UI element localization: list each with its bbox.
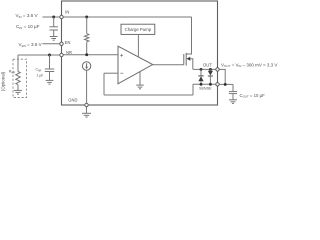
svg-text:VOUT = VIN – 300 mV ≈ 3.3 V: VOUT = VIN – 300 mV ≈ 3.3 V — [221, 62, 277, 68]
wire RNR to ground — [17, 85, 19, 91]
junction SENSE left — [200, 83, 203, 86]
pin EN circle — [60, 42, 63, 45]
dashed optional box — [13, 59, 27, 97]
capacitor COUT — [229, 84, 237, 99]
pin OUT circle — [216, 68, 219, 71]
junction OUT left — [200, 68, 203, 71]
wire charge pump to amplifier — [137, 34, 139, 56]
wire IN rail — [62, 16, 192, 18]
junction CIN tap — [52, 16, 55, 19]
wire VIN to IN pin — [43, 16, 62, 18]
resistor reference — [85, 34, 89, 42]
ground RNR — [14, 90, 22, 94]
junction CNR tap — [48, 54, 51, 57]
svg-text:Charge Pump: Charge Pump — [125, 27, 152, 32]
transistor Q1 drain lead — [186, 17, 191, 54]
transistor Q1 channel bar — [185, 53, 187, 66]
svg-text:CNR: CNR — [36, 68, 42, 73]
minus input mark — [120, 72, 123, 74]
svg-text:EN: EN — [65, 40, 71, 45]
wire down to RNR — [17, 55, 19, 72]
pin IN circle — [60, 15, 63, 18]
plus input mark — [120, 54, 123, 57]
svg-text:1 µF: 1 µF — [37, 74, 44, 78]
wire SENSE pin external — [218, 83, 234, 85]
junction NR node — [85, 53, 88, 56]
pin SENSE circle — [216, 83, 219, 86]
current source arrow — [86, 63, 88, 67]
wire resistor to NR node — [86, 42, 88, 55]
wire SENSE rail — [193, 83, 218, 85]
wire NR external — [18, 54, 62, 56]
capacitor CNR — [45, 55, 54, 80]
transistor Q1 gate bar — [183, 54, 185, 65]
wire VEN to EN pin — [43, 43, 62, 45]
charge pump block — [121, 24, 155, 34]
pin NR circle — [60, 53, 63, 56]
current source I1 — [82, 62, 90, 70]
svg-text:RNR: RNR — [9, 70, 15, 75]
transistor Q1 body arrow — [187, 57, 191, 61]
svg-text:SENSE: SENSE — [199, 87, 212, 91]
diode D2 down — [209, 69, 211, 70]
svg-text:COUT = 10 µF: COUT = 10 µF — [240, 93, 266, 99]
wire to resistor — [86, 17, 88, 34]
svg-text:(Optional): (Optional) — [0, 71, 5, 91]
svg-text:VEN = 3.6 V: VEN = 3.6 V — [19, 42, 43, 48]
wire NR node to op-amp — [62, 54, 119, 56]
svg-text:CIN = 10 µF: CIN = 10 µF — [16, 24, 40, 30]
wire OUT rail — [193, 68, 218, 70]
ground CNR — [46, 80, 54, 84]
junction IN rail to reference — [85, 16, 88, 19]
pin GND circle — [85, 103, 88, 106]
wire OUT pin external — [218, 69, 226, 84]
transistor Q1 source lead — [190, 59, 193, 70]
ground GND pin — [86, 107, 88, 113]
wire feedback riser left — [103, 73, 105, 95]
wire op-amp output to gate — [153, 64, 184, 66]
op-amp ground stub — [139, 72, 141, 85]
ground COUT — [229, 100, 237, 104]
junction OUT right — [209, 68, 212, 71]
resistor RNR — [16, 72, 20, 85]
diode D1 up — [200, 69, 202, 75]
svg-text:OUT: OUT — [203, 63, 212, 68]
capacitor CIN — [49, 17, 58, 36]
wire feedback riser right — [192, 84, 194, 95]
IC body U1 — [62, 1, 218, 105]
ground CIN — [50, 37, 58, 41]
svg-text:VIN = 3.6 V: VIN = 3.6 V — [16, 13, 39, 19]
wire feedback rail — [104, 94, 193, 96]
svg-text:IN: IN — [65, 10, 69, 15]
junction SENSE right — [209, 83, 212, 86]
svg-text:GND: GND — [68, 98, 77, 103]
wire current source to GND pin — [86, 70, 88, 105]
junction OUT SENSE tie — [224, 83, 227, 86]
op-amp U2 error amplifier — [118, 46, 153, 84]
wire feedback to minus input — [104, 72, 118, 74]
ground op-amp — [136, 85, 144, 89]
